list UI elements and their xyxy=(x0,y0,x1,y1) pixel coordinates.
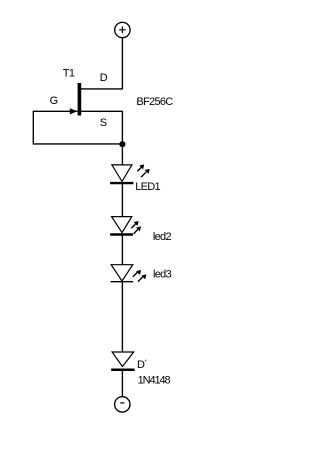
svg-text:led3: led3 xyxy=(153,268,172,280)
LED LED1 xyxy=(110,164,150,183)
svg-text:T1: T1 xyxy=(63,68,75,80)
wire source horizontal xyxy=(81,110,123,112)
svg-text:D: D xyxy=(100,72,108,84)
transistor T1 gate arrowhead xyxy=(70,108,78,114)
negative supply terminal xyxy=(115,397,130,412)
svg-text:S: S xyxy=(100,117,107,129)
wire diode to - terminal xyxy=(121,370,123,397)
wire junction to LED1 xyxy=(121,144,123,165)
svg-text:D´: D´ xyxy=(137,359,147,371)
svg-text:LED1: LED1 xyxy=(135,181,160,193)
wire LED1 to led2 xyxy=(121,183,123,217)
positive supply terminal xyxy=(115,22,130,37)
wire drain horizontal xyxy=(81,88,123,90)
diode D' 1N4148 xyxy=(111,352,134,370)
wire from + terminal down xyxy=(121,38,123,89)
LED led3 xyxy=(111,265,147,282)
wire gate feedback left vertical xyxy=(32,111,34,144)
wire source down to junction xyxy=(121,111,123,144)
wire led2 to led3 xyxy=(121,235,123,265)
wire gate feedback bottom horizontal xyxy=(33,143,123,145)
svg-text:led2: led2 xyxy=(153,231,172,243)
wire led3 to diode xyxy=(121,282,123,352)
junction node (gate-source tie) xyxy=(119,141,125,147)
LED led2 xyxy=(110,217,141,235)
wire gate horizontal xyxy=(33,110,77,112)
transistor T1 (JFET BF256C) channel bar xyxy=(78,83,82,116)
svg-text:BF256C: BF256C xyxy=(136,96,173,108)
svg-text:1N4148: 1N4148 xyxy=(138,375,171,387)
svg-text:G: G xyxy=(50,95,58,107)
